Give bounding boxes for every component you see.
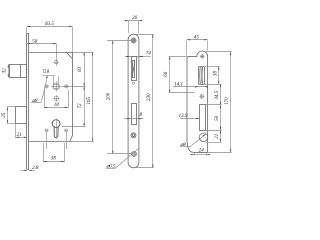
svg-text:⌀8: ⌀8: [180, 143, 186, 148]
svg-text:50: 50: [215, 115, 220, 121]
svg-text:230: 230: [147, 93, 152, 101]
svg-text:18: 18: [54, 103, 60, 108]
svg-text:24: 24: [199, 149, 205, 154]
svg-text:72: 72: [78, 103, 83, 109]
svg-text:200: 200: [106, 92, 111, 100]
svg-text:38: 38: [51, 156, 57, 161]
svg-text:13.9: 13.9: [179, 114, 188, 119]
svg-text:32: 32: [3, 68, 8, 74]
svg-text:170: 170: [225, 97, 230, 105]
svg-text:83.5: 83.5: [45, 22, 54, 27]
svg-text:⌀8: ⌀8: [32, 99, 38, 104]
svg-text:38: 38: [213, 71, 218, 77]
svg-text:83: 83: [78, 66, 83, 72]
svg-text:14.1: 14.1: [174, 82, 183, 87]
svg-text:25: 25: [2, 112, 7, 118]
svg-text:26: 26: [132, 16, 138, 21]
svg-text:74: 74: [146, 52, 152, 57]
svg-text:45: 45: [194, 35, 200, 40]
svg-text:66: 66: [164, 71, 169, 77]
svg-text:165: 165: [87, 97, 92, 105]
svg-text:34.5: 34.5: [215, 90, 220, 99]
svg-text:56: 56: [32, 39, 38, 44]
svg-text:2.8: 2.8: [32, 166, 39, 171]
svg-text:21: 21: [215, 134, 220, 139]
svg-text:21: 21: [17, 133, 22, 138]
